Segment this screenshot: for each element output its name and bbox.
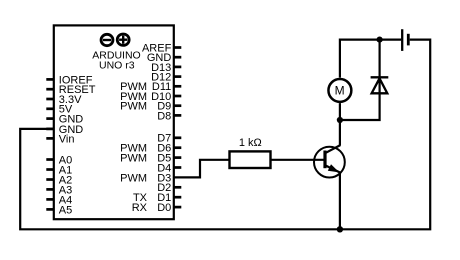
svg-text:D8: D8 (157, 110, 171, 122)
svg-text:M: M (335, 83, 345, 97)
svg-text:D0: D0 (157, 202, 171, 214)
svg-text:1 kΩ: 1 kΩ (239, 137, 262, 149)
svg-text:UNO r3: UNO r3 (99, 60, 135, 72)
svg-text:PWM: PWM (120, 172, 147, 184)
svg-text:Vin: Vin (59, 133, 75, 145)
svg-text:PWM: PWM (120, 153, 147, 165)
svg-text:RX: RX (132, 202, 148, 214)
svg-text:A5: A5 (59, 204, 72, 216)
svg-text:PWM: PWM (120, 101, 147, 113)
